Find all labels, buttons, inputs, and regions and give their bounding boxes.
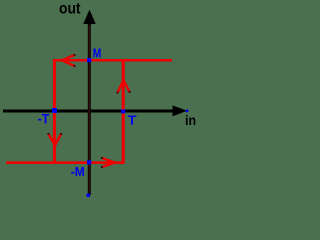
svg-text:-T: -T xyxy=(38,111,50,126)
svg-text:-M: -M xyxy=(71,164,85,179)
svg-text:in: in xyxy=(185,113,196,128)
svg-text:M: M xyxy=(93,47,102,61)
svg-text:out: out xyxy=(59,0,81,17)
svg-text:T: T xyxy=(128,113,137,128)
